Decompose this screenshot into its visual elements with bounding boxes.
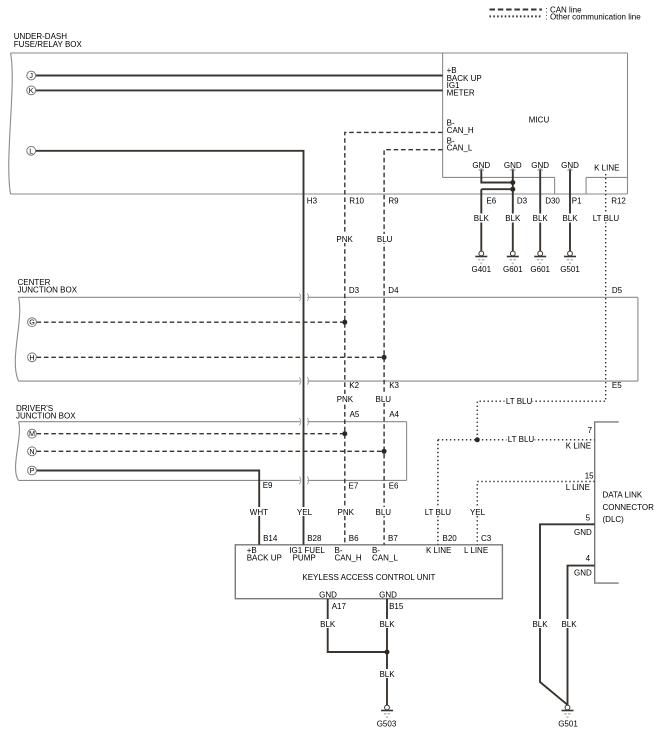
svg-text:G501: G501 [558, 720, 578, 729]
svg-text:KEYLESS ACCESS CONTROL UNIT: KEYLESS ACCESS CONTROL UNIT [302, 573, 435, 582]
svg-text:G601: G601 [503, 265, 523, 274]
svg-text:R12: R12 [611, 197, 626, 206]
svg-text:BACK UP: BACK UP [247, 554, 282, 563]
svg-text:GND: GND [574, 569, 592, 578]
svg-text:GND: GND [531, 161, 549, 170]
svg-text:5: 5 [586, 513, 591, 522]
svg-text:LT BLU: LT BLU [425, 508, 452, 517]
svg-text:WHT: WHT [250, 508, 268, 517]
svg-text:A4: A4 [389, 410, 399, 419]
svg-text:LT BLU: LT BLU [506, 397, 533, 406]
svg-text:GND: GND [561, 161, 579, 170]
svg-text:A17: A17 [332, 602, 347, 611]
svg-text:E5: E5 [612, 381, 622, 390]
svg-text:A5: A5 [350, 410, 360, 419]
svg-text:E7: E7 [349, 482, 359, 491]
svg-text:D5: D5 [612, 286, 623, 295]
svg-text:CONNECTOR: CONNECTOR [603, 503, 655, 512]
svg-text:C3: C3 [481, 534, 492, 543]
svg-text:7: 7 [588, 426, 593, 435]
svg-text:BLU: BLU [376, 395, 392, 404]
svg-text:D3: D3 [517, 197, 528, 206]
svg-text:BLK: BLK [379, 670, 395, 679]
svg-text:G601: G601 [530, 265, 550, 274]
svg-text:N: N [29, 447, 34, 456]
svg-text:JUNCTION BOX: JUNCTION BOX [18, 285, 78, 294]
svg-text:4: 4 [586, 554, 591, 563]
svg-text:P: P [30, 466, 35, 475]
svg-text:BLK: BLK [379, 620, 395, 629]
svg-text:B14: B14 [263, 534, 278, 543]
svg-text:CAN_L: CAN_L [447, 144, 473, 153]
svg-text:K3: K3 [389, 381, 399, 390]
svg-text:B6: B6 [349, 534, 359, 543]
svg-text:PNK: PNK [337, 395, 354, 404]
svg-text:B28: B28 [307, 534, 322, 543]
svg-text:LT BLU: LT BLU [593, 214, 620, 223]
svg-text:L: L [29, 146, 33, 155]
svg-text:H3: H3 [307, 197, 318, 206]
svg-text:15: 15 [585, 471, 594, 480]
svg-text:DATA LINK: DATA LINK [603, 490, 643, 499]
svg-text:K LINE: K LINE [566, 441, 591, 450]
svg-text:GND: GND [379, 591, 397, 600]
svg-text:GND: GND [574, 528, 592, 537]
svg-text:B7: B7 [388, 534, 398, 543]
svg-text:K: K [29, 86, 34, 95]
svg-text:E9: E9 [263, 481, 273, 490]
svg-text:FUSE/RELAY BOX: FUSE/RELAY BOX [14, 40, 83, 49]
svg-text:GND: GND [319, 591, 337, 600]
svg-text:METER: METER [447, 89, 475, 98]
svg-text:P1: P1 [572, 197, 582, 206]
svg-text:J: J [29, 71, 33, 80]
svg-text:CAN_L: CAN_L [372, 554, 398, 563]
svg-text:PUMP: PUMP [293, 554, 316, 563]
svg-text:BLU: BLU [377, 235, 393, 244]
svg-text:BLK: BLK [320, 620, 336, 629]
svg-text:L LINE: L LINE [566, 483, 590, 492]
svg-text:BLK: BLK [532, 620, 548, 629]
svg-text:E6: E6 [486, 197, 496, 206]
svg-text:: Other communication line: : Other communication line [546, 12, 642, 21]
svg-text:D30: D30 [545, 197, 560, 206]
svg-text:(DLC): (DLC) [603, 515, 625, 524]
svg-text:PNK: PNK [336, 235, 353, 244]
svg-text:L LINE: L LINE [464, 546, 488, 555]
svg-text:G501: G501 [560, 265, 580, 274]
svg-text:M: M [29, 429, 35, 438]
svg-text:MICU: MICU [529, 116, 550, 125]
svg-text:BLU: BLU [376, 508, 392, 517]
svg-text:BLK: BLK [561, 620, 577, 629]
svg-text:B15: B15 [389, 602, 404, 611]
svg-text:B20: B20 [443, 534, 458, 543]
svg-text:K LINE: K LINE [426, 546, 451, 555]
svg-text:D4: D4 [388, 286, 399, 295]
svg-text:E6: E6 [389, 482, 399, 491]
svg-text:JUNCTION BOX: JUNCTION BOX [16, 411, 76, 420]
svg-text:YEL: YEL [297, 508, 313, 517]
svg-text:BLK: BLK [562, 214, 578, 223]
svg-text:R10: R10 [349, 197, 364, 206]
svg-text:GND: GND [504, 161, 522, 170]
svg-text:H: H [29, 353, 34, 362]
svg-text:G503: G503 [377, 720, 397, 729]
svg-text:D3: D3 [349, 286, 360, 295]
svg-text:K2: K2 [349, 381, 359, 390]
svg-text:CAN_H: CAN_H [447, 126, 474, 135]
svg-text:BLK: BLK [505, 214, 521, 223]
svg-text:BLK: BLK [474, 214, 490, 223]
svg-text:GND: GND [472, 161, 490, 170]
svg-text:BLK: BLK [533, 214, 549, 223]
svg-text:CAN_H: CAN_H [335, 554, 362, 563]
svg-text:R9: R9 [388, 197, 399, 206]
svg-text:LT BLU: LT BLU [508, 435, 535, 444]
svg-text:YEL: YEL [470, 508, 486, 517]
svg-text:PNK: PNK [338, 508, 355, 517]
svg-text:G401: G401 [472, 265, 492, 274]
svg-text:G: G [29, 318, 35, 327]
svg-text:K LINE: K LINE [594, 163, 619, 172]
